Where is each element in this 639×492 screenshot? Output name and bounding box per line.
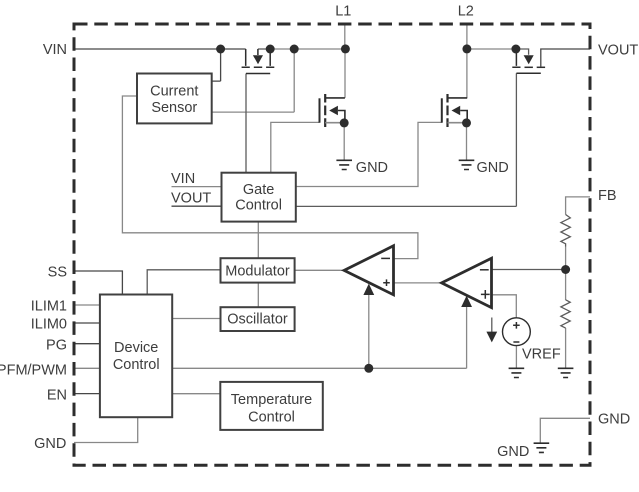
- wire gate control to NMOS2 gate: [296, 122, 442, 186]
- ground under M2: [459, 160, 475, 169]
- svg-text:Control: Control: [235, 197, 282, 213]
- transistor Q1 input PMOS with body diode: [242, 49, 275, 74]
- wire device control to temperature control: [172, 393, 220, 395]
- ground under VREF: [509, 368, 525, 377]
- voltage source VREF: [503, 318, 531, 346]
- svg-text:L2: L2: [458, 4, 474, 20]
- wire L1 pin: [344, 25, 346, 49]
- svg-text:GND: GND: [34, 436, 66, 452]
- wire gate control to modulator: [257, 222, 259, 259]
- wire comparator2 output to comparator1 plus: [394, 282, 442, 284]
- wire VOUT rail: [541, 49, 590, 67]
- wire FB pin to divider: [566, 197, 590, 215]
- svg-text:VIN: VIN: [43, 42, 67, 58]
- wire modulator to oscillator: [257, 283, 259, 308]
- svg-text:VREF: VREF: [522, 347, 561, 363]
- block Device Control: [100, 295, 172, 418]
- wire VREF to ground: [515, 346, 517, 368]
- svg-text:GND: GND: [497, 444, 529, 460]
- svg-text:PG: PG: [46, 338, 67, 354]
- block Gate Control: [222, 173, 296, 222]
- node M2 source: [462, 118, 471, 127]
- wire L2 to NMOS2 drain: [466, 49, 468, 98]
- wire rail after input FET to L1 node: [258, 48, 270, 50]
- block Current Sensor: [137, 74, 212, 124]
- svg-text:GND: GND: [477, 160, 509, 176]
- node L1: [341, 44, 350, 53]
- wire VOUT input to gate control: [172, 205, 222, 207]
- wire divider bottom to ground: [565, 328, 567, 368]
- node L2: [462, 44, 471, 53]
- svg-text:VOUT: VOUT: [598, 43, 638, 59]
- wire comparator1 output to modulator: [295, 269, 345, 271]
- wire SS pin to device control: [74, 271, 122, 295]
- wire modulator to device control: [147, 270, 220, 295]
- transistor Q2 output PMOS with body diode: [512, 49, 545, 73]
- svg-text:Gate: Gate: [243, 182, 274, 198]
- svg-text:PFM/PWM: PFM/PWM: [0, 363, 67, 379]
- node PMOS1 drain: [266, 45, 275, 54]
- block Modulator: [221, 258, 295, 282]
- svg-text:Current: Current: [150, 83, 198, 99]
- svg-text:Sensor: Sensor: [151, 100, 197, 116]
- wire ILIM1 pin: [74, 304, 100, 306]
- resistor R2 feedback bottom: [561, 300, 570, 328]
- wire VIN input to gate control: [172, 186, 222, 188]
- node sense return: [290, 45, 299, 54]
- wire gate control to PMOS2 gate: [296, 205, 517, 207]
- wire divider middle: [565, 247, 567, 301]
- wire comparator2 bias arrow line: [466, 307, 468, 369]
- node PMOS2 source: [511, 45, 520, 54]
- svg-text:FB: FB: [598, 188, 617, 204]
- resistor R1 feedback top: [561, 215, 570, 247]
- node FB divider tap: [561, 265, 570, 274]
- wire PMOS2 gate vertical: [515, 73, 517, 206]
- wire EN pin: [74, 393, 100, 395]
- arrow into comparator A2 plus input: [461, 296, 472, 307]
- current source arrow beside VREF: [486, 318, 497, 343]
- block Oscillator: [221, 307, 295, 331]
- wire L2 pin: [466, 25, 468, 49]
- node VIN sense tap: [216, 45, 225, 54]
- transistor M1 low-side NMOS: [320, 94, 345, 127]
- svg-text:VOUT: VOUT: [171, 191, 211, 207]
- wire GND right pin: [540, 418, 590, 442]
- wire comparator1 bias arrow line: [368, 295, 370, 369]
- dashed IC boundary: [74, 24, 590, 465]
- svg-text:Oscillator: Oscillator: [227, 312, 288, 328]
- op-amp comparator A2: [442, 258, 492, 307]
- wire NMOS2 source to ground: [466, 123, 468, 160]
- ground under feedback divider: [558, 368, 574, 377]
- svg-text:Device: Device: [114, 340, 158, 356]
- wire VIN rail: [74, 48, 246, 50]
- svg-text:EN: EN: [47, 388, 67, 404]
- svg-text:SS: SS: [48, 265, 67, 281]
- block Temperature Control: [220, 382, 322, 430]
- wire PFM/PWM pin through device control to comparator current sources: [74, 367, 467, 369]
- svg-text:L1: L1: [335, 4, 351, 20]
- svg-text:ILIM1: ILIM1: [31, 299, 67, 315]
- svg-text:Temperature: Temperature: [231, 392, 312, 408]
- wire L2 node to PMOS2: [467, 48, 516, 50]
- wire current sensor output to comparator minus input: [122, 96, 418, 259]
- wire NMOS1 gate to gate control: [271, 122, 320, 172]
- node bias line junction: [364, 364, 373, 373]
- wire FB node to comparator2 minus: [492, 269, 566, 271]
- node M1 source: [340, 118, 349, 127]
- svg-text:GND: GND: [598, 412, 630, 428]
- wire PMOS1 gate to gate control: [245, 74, 247, 173]
- arrow into comparator A1 plus input: [363, 284, 374, 295]
- wire junction to current sensor top: [212, 49, 221, 81]
- wire ILIM0 pin: [74, 322, 100, 324]
- svg-text:ILIM0: ILIM0: [31, 317, 67, 333]
- wire L1 to NMOS drain: [344, 49, 346, 98]
- wire NMOS1 source to ground: [343, 123, 345, 160]
- wire GND pin to device control: [74, 417, 138, 442]
- wire PMOS2 diode stub: [516, 49, 529, 55]
- wire PG pin: [74, 343, 100, 345]
- wire comparator2 plus to VREF: [492, 295, 517, 318]
- wire current sensor lower sense line: [212, 49, 295, 112]
- ground at GND pin bottom right: [534, 443, 550, 452]
- transistor M2 low-side NMOS: [442, 94, 467, 127]
- svg-text:VIN: VIN: [171, 171, 195, 187]
- wire oscillator to device control: [172, 318, 220, 320]
- svg-text:GND: GND: [356, 160, 388, 176]
- svg-text:Modulator: Modulator: [225, 264, 290, 280]
- svg-text:Control: Control: [248, 409, 295, 425]
- svg-text:Control: Control: [113, 357, 160, 373]
- op-amp comparator A1: [344, 246, 393, 295]
- ground under M1: [336, 160, 352, 169]
